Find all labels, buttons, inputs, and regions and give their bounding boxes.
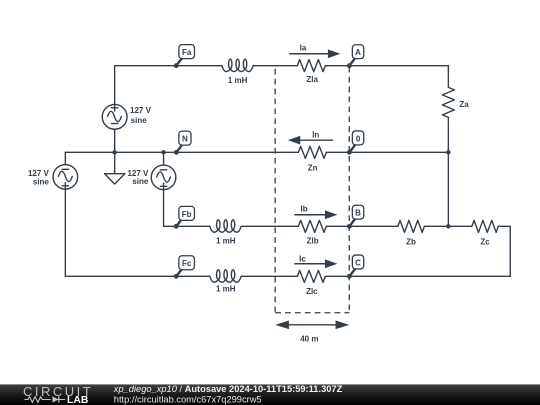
wire phase A after inductor	[253, 65, 297, 67]
wire phase C after Zlc	[326, 275, 510, 277]
svg-text:C: C	[355, 259, 361, 268]
wire V2 bottom to phase B	[164, 190, 210, 227]
svg-text:B: B	[355, 209, 361, 218]
resistor Zlb	[298, 220, 326, 232]
svg-text:40 m: 40 m	[300, 335, 318, 344]
V2 sine	[157, 172, 171, 182]
resistor Zb	[398, 220, 425, 232]
wire phase A after Zla to Za corner	[325, 65, 448, 67]
svg-text:Fb: Fb	[182, 210, 192, 219]
wire wye common to Zc	[448, 225, 472, 227]
footer bar	[0, 384, 540, 405]
V3 plus	[62, 183, 68, 189]
resistor Zc	[472, 220, 499, 232]
wire V2 top stub	[163, 152, 165, 165]
wire phase B after inductor	[242, 225, 299, 227]
flag Fb	[174, 206, 195, 228]
svg-text:http://circuitlab.com/c67x7q29: http://circuitlab.com/c67x7q299crw5	[114, 395, 262, 405]
voltage source V1	[102, 104, 127, 129]
wire Zc to right edge	[498, 226, 510, 276]
flag Fa	[174, 45, 195, 68]
V3 sine	[58, 171, 72, 181]
svg-text:sine: sine	[132, 177, 149, 186]
svg-text:In: In	[312, 131, 319, 140]
flag 0	[347, 131, 364, 155]
flag Fc	[174, 256, 195, 279]
junction V1 ground	[112, 150, 116, 154]
wire neutral to wye common	[447, 152, 449, 226]
current arrow Ic	[294, 259, 337, 268]
dashed measurement box	[275, 67, 349, 313]
current arrow Ia	[289, 49, 340, 58]
wire phase B after Zb	[424, 225, 448, 227]
svg-text:LAB: LAB	[67, 395, 89, 405]
svg-text:sine: sine	[33, 178, 50, 187]
dashed line left	[274, 69, 276, 313]
wire V1 top stub	[114, 66, 116, 105]
svg-text:127 V: 127 V	[130, 106, 152, 115]
voltage source V2	[151, 165, 176, 190]
wire phase A horizontal	[115, 65, 222, 67]
wire Za top stub	[447, 66, 449, 88]
wire phase B after Zlb	[326, 225, 398, 227]
svg-text:1 mH: 1 mH	[228, 76, 248, 85]
svg-text:xp_diego_xp10 / Autosave 2024-: xp_diego_xp10 / Autosave 2024-10-11T15:5…	[113, 384, 343, 394]
resistor Zlc	[297, 270, 325, 282]
V2 plus	[160, 183, 166, 189]
flag N	[174, 131, 191, 155]
inductor L1	[222, 59, 253, 71]
svg-text:Fc: Fc	[182, 259, 192, 268]
V3 minus	[62, 168, 68, 170]
svg-text:Zlc: Zlc	[306, 287, 318, 296]
dimension arrow 40 m	[275, 321, 349, 330]
wire neutral bus	[65, 151, 298, 153]
current arrow In	[288, 136, 333, 145]
resistor Za	[442, 87, 454, 117]
resistor Zla	[297, 60, 325, 72]
current arrow Ib	[294, 210, 337, 219]
wire neutral after Zn	[326, 151, 448, 153]
flag B	[347, 205, 364, 229]
svg-text:N: N	[182, 135, 188, 144]
svg-text:1 mH: 1 mH	[216, 285, 236, 294]
wire V3 top corner	[64, 152, 66, 164]
flag C	[347, 255, 364, 279]
svg-text:Zc: Zc	[480, 238, 490, 247]
wire V3 bottom to phase C	[65, 189, 210, 276]
svg-text:Ib: Ib	[300, 205, 307, 214]
inductor L2	[210, 220, 241, 232]
svg-text:Zb: Zb	[406, 238, 416, 247]
logo squiggle	[25, 397, 66, 403]
wire Za bottom stub	[447, 117, 449, 152]
svg-text:Za: Za	[459, 100, 469, 109]
V2 minus	[160, 169, 166, 171]
logo diode	[53, 396, 59, 402]
flag A	[347, 45, 364, 68]
svg-text:127 V: 127 V	[28, 169, 50, 178]
voltage source V3	[53, 165, 78, 190]
svg-text:Zn: Zn	[308, 163, 318, 172]
svg-text:0: 0	[356, 134, 361, 143]
svg-text:Zla: Zla	[306, 75, 318, 84]
ground	[104, 174, 124, 184]
wire ground stub	[114, 152, 116, 173]
inductor L3	[210, 270, 241, 282]
svg-text:A: A	[355, 48, 361, 57]
wire V1 bottom stub	[114, 129, 116, 152]
svg-text:sine: sine	[131, 116, 148, 125]
svg-text:Ic: Ic	[299, 255, 306, 264]
resistor Zn	[298, 146, 326, 158]
svg-text:Ia: Ia	[300, 44, 307, 53]
svg-text:Zlb: Zlb	[307, 236, 319, 245]
junction Za neutral	[446, 150, 450, 154]
svg-text:1 mH: 1 mH	[216, 237, 236, 246]
dashed line bottom	[275, 312, 349, 314]
dashed line right	[348, 67, 350, 313]
V1 minus	[111, 123, 117, 125]
V1 sine	[108, 111, 122, 121]
junction wye common	[446, 224, 450, 228]
junction V2 neutral	[161, 150, 165, 154]
svg-text:Fa: Fa	[182, 48, 192, 57]
wire phase C after inductor	[242, 275, 298, 277]
V1 plus	[111, 105, 117, 111]
